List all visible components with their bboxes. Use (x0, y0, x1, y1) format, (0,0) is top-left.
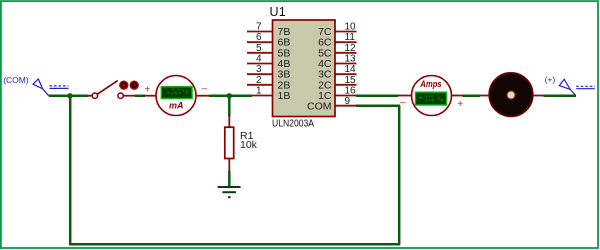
wire: left vertical down from junction (69, 96, 72, 244)
svg-text:11: 11 (345, 32, 356, 43)
switch contacts and lever (92, 93, 97, 98)
IC U1 body ULN2003A (273, 20, 336, 117)
svg-text:14: 14 (345, 64, 357, 75)
wire: (COM) terminal to switch (49, 95, 89, 98)
terminal (COM) blue probe (33, 79, 69, 96)
wire: COM pin 9 horizontal (356, 104, 400, 107)
svg-text:+: + (145, 85, 151, 96)
resistor R1 pins (228, 115, 230, 129)
pin numbers left (256, 22, 262, 97)
wire: pin 16 to Amps meter (356, 95, 398, 98)
svg-text:mA: mA (169, 101, 184, 111)
svg-text:–: – (400, 97, 406, 108)
ammeter Amps body (412, 76, 452, 116)
svg-text:ULN2003A: ULN2003A (272, 118, 314, 129)
svg-text:(+): (+) (545, 75, 556, 85)
svg-text:Amps: Amps (419, 79, 441, 89)
node: junction at left terminal (67, 93, 72, 98)
svg-text:+: + (457, 99, 463, 110)
svg-text:13: 13 (345, 54, 357, 65)
svg-text:6: 6 (256, 32, 262, 43)
svg-text:2: 2 (256, 75, 262, 86)
wire: switch to mA meter (135, 95, 145, 98)
terminal (+) blue probe (559, 79, 595, 95)
ammeter mA LCD (161, 87, 192, 99)
ammeter Amps pins (397, 95, 412, 97)
buzzer body (489, 73, 533, 117)
svg-text:1: 1 (256, 86, 262, 97)
svg-text:12: 12 (345, 43, 357, 54)
wire: bottom horizontal (69, 243, 400, 246)
IC U1 pins right (335, 32, 357, 106)
svg-text:COM: COM (307, 101, 332, 113)
pin numbers right (345, 22, 357, 108)
svg-text:4: 4 (256, 54, 262, 65)
ammeter mA pins (145, 95, 157, 97)
svg-text:7: 7 (256, 22, 262, 33)
wire: mA meter to pin 1B (209, 95, 252, 98)
svg-text:–: – (202, 84, 208, 95)
wire: Amps meter to buzzer (463, 95, 480, 98)
buzzer pins (479, 95, 491, 97)
pin labels left inside (278, 26, 291, 102)
ground (218, 187, 241, 197)
svg-text:5: 5 (256, 43, 262, 54)
node: junction above R1 (227, 93, 232, 98)
svg-text:(COM): (COM) (3, 75, 29, 85)
svg-text:3: 3 (256, 64, 262, 75)
resistor R1 body (225, 127, 234, 158)
pin labels right inside (307, 26, 332, 113)
ammeter mA body (156, 76, 196, 116)
switch SW pins (88, 95, 93, 97)
svg-text:U1: U1 (270, 5, 286, 19)
ammeter Amps LCD (416, 92, 447, 105)
svg-text:1B: 1B (278, 90, 291, 102)
wire: right vertical up to COM (398, 106, 401, 245)
svg-text:9: 9 (345, 96, 351, 107)
wire: R1 bottom to ground (228, 171, 231, 186)
svg-text:16: 16 (345, 86, 357, 97)
wire: buzzer to (+) terminal (544, 95, 576, 98)
buzzer center hole (507, 91, 516, 100)
svg-text:10: 10 (345, 22, 357, 33)
svg-text:15: 15 (345, 75, 357, 86)
wire: junction down to R1 (228, 96, 231, 117)
IC U1 pins left (247, 32, 273, 96)
svg-text:10k: 10k (240, 139, 258, 151)
switch toggle buttons (120, 81, 138, 89)
